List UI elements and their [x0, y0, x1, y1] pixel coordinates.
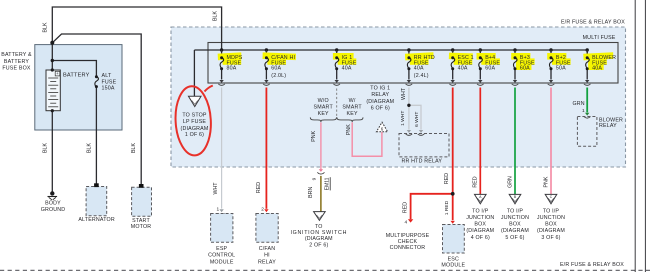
svg-text:WHT: WHT: [213, 182, 219, 195]
svg-text:(2.4L): (2.4L): [414, 73, 429, 79]
wire WHT mdps to esp: [221, 88, 223, 209]
connector out B+4: [478, 80, 482, 83]
svg-text:(DIAGRAM: (DIAGRAM: [305, 236, 333, 242]
bus junction x=408.9: [407, 48, 410, 51]
wire BRN to ignition switch: [320, 176, 322, 212]
brace w/ smart key: [337, 117, 363, 122]
battery & battery fuse box: [35, 45, 122, 130]
svg-text:SMART: SMART: [314, 104, 334, 110]
svg-text:GRN: GRN: [507, 176, 513, 188]
connector out IG 1: [335, 80, 339, 83]
connector out B+3: [513, 80, 517, 83]
svg-text:(DIAGRAM: (DIAGRAM: [501, 228, 529, 234]
fuse RR HTD: [407, 58, 411, 69]
svg-text:E/R FUSE & RELAY BOX: E/R FUSE & RELAY BOX: [561, 19, 625, 25]
svg-text:BLK: BLK: [213, 11, 219, 21]
bus junction x=551.0: [549, 48, 552, 51]
wire fuse drop x=266.4: [265, 50, 267, 58]
fuse MDPS highlight: [218, 52, 242, 60]
svg-text:PNK: PNK: [311, 130, 317, 141]
svg-text:60A: 60A: [485, 66, 495, 72]
svg-text:4: 4: [404, 219, 407, 225]
svg-text:C/FAN: C/FAN: [259, 246, 276, 252]
bus junction x=452.7: [451, 48, 454, 51]
connector out MDPS: [219, 80, 223, 83]
fuse B+2 highlight: [547, 53, 566, 60]
svg-text:50A: 50A: [556, 66, 566, 72]
connector out RR HTD: [407, 80, 411, 83]
svg-text:RED: RED: [403, 202, 409, 213]
brace w/o smart key: [310, 117, 336, 122]
svg-text:MODULE: MODULE: [210, 259, 234, 265]
svg-text:BOX: BOX: [509, 222, 521, 228]
fuse BLOWER: [586, 58, 590, 69]
svg-text:2 OF 6): 2 OF 6): [309, 242, 328, 248]
wire to start motor: [52, 34, 141, 184]
svg-text:40A: 40A: [342, 66, 352, 72]
fuse B+4: [479, 58, 483, 69]
connector out BLOWER: [585, 80, 589, 83]
svg-text:GROUND: GROUND: [41, 207, 66, 213]
svg-text:40A: 40A: [414, 66, 424, 72]
bus junction x=266.4: [265, 48, 268, 51]
svg-text:MOTOR: MOTOR: [131, 224, 152, 230]
svg-text:RELAY: RELAY: [371, 92, 389, 98]
svg-text:RELAY: RELAY: [599, 123, 617, 129]
svg-text:1: 1: [216, 207, 219, 213]
svg-text:40A: 40A: [592, 66, 602, 72]
svg-text:MULTI FUSE: MULTI FUSE: [583, 35, 616, 41]
svg-text:TO I/P: TO I/P: [543, 208, 560, 214]
svg-text:BATTERY: BATTERY: [63, 73, 90, 79]
fuse C/FAN HI: [265, 58, 269, 69]
fuse B+3: [513, 58, 517, 69]
svg-text:(2.0L): (2.0L): [271, 73, 286, 79]
wire battery feed top: [52, 7, 221, 50]
svg-text:5 OF 6): 5 OF 6): [505, 235, 524, 241]
svg-text:(DIAGRAM: (DIAGRAM: [366, 99, 394, 105]
fuse RR HTD highlight: [405, 52, 434, 60]
blower relay box: [577, 117, 597, 147]
svg-text:60A: 60A: [271, 66, 281, 72]
alternator: [86, 187, 107, 216]
svg-text:1 OF 6): 1 OF 6): [185, 132, 204, 138]
svg-text:RED: RED: [256, 182, 262, 193]
svg-text:BLK: BLK: [43, 22, 49, 32]
svg-text:JUNCTION: JUNCTION: [537, 215, 565, 221]
svg-text:6: 6: [381, 127, 384, 132]
junction node battery top: [50, 41, 54, 45]
wire PNK b+ fuse: [550, 88, 552, 195]
junction esc: [451, 192, 455, 196]
body ground symbol: [50, 191, 54, 195]
svg-text:(DIAGRAM: (DIAGRAM: [537, 228, 565, 234]
svg-text:1 WHT: 1 WHT: [400, 111, 406, 126]
fuse ALT 150A: [95, 77, 99, 88]
svg-text:RR HTD RELAY: RR HTD RELAY: [401, 159, 442, 165]
svg-text:(DIAGRAM: (DIAGRAM: [466, 228, 494, 234]
junction rr htd: [407, 104, 410, 107]
fuse IG 1: [335, 58, 339, 69]
connector out C/FAN HI: [264, 80, 268, 83]
wire WHT rr htd: [408, 88, 410, 130]
svg-text:RELAY: RELAY: [258, 259, 276, 265]
connector out ESC 1: [451, 80, 455, 83]
bus junction x=221.6: [220, 48, 223, 51]
bottom box dashed border: [0, 269, 650, 271]
svg-text:TO I/P: TO I/P: [472, 208, 489, 214]
svg-text:40A: 40A: [458, 66, 468, 72]
arrow to stop lp fuse: [188, 96, 201, 106]
RR HTD relay box: [399, 134, 449, 157]
svg-text:CONNECTOR: CONNECTOR: [390, 245, 426, 251]
connector EM11: [319, 169, 323, 172]
fuse B+3 highlight: [511, 53, 530, 60]
svg-text:BATTERY: BATTERY: [4, 59, 29, 65]
wire fuse drop x=515.0: [514, 50, 516, 58]
wire fuse drop x=452.7: [452, 50, 454, 58]
svg-text:80A: 80A: [227, 66, 237, 72]
svg-text:ESP: ESP: [216, 246, 227, 252]
svg-text:JUNCTION: JUNCTION: [466, 215, 494, 221]
svg-text:BOX: BOX: [474, 222, 486, 228]
svg-text:LP FUSE: LP FUSE: [183, 119, 207, 125]
svg-text:TO I/P: TO I/P: [507, 208, 524, 214]
wire fuse drop x=221.6: [221, 50, 223, 58]
page border lines: [634, 0, 636, 272]
smart key option split dashed line: [336, 89, 338, 117]
fuse BLOWER highlight: [583, 52, 613, 60]
wire branch to alt fuse: [52, 61, 96, 77]
multi fuse box: [208, 43, 618, 84]
svg-text:BODY: BODY: [45, 201, 61, 207]
svg-text:SMART: SMART: [342, 104, 362, 110]
svg-text:PNK: PNK: [346, 124, 352, 135]
svg-text:ALT: ALT: [102, 73, 112, 79]
wire alt fuse to alternator: [95, 87, 97, 185]
svg-text:WHT: WHT: [401, 87, 407, 100]
svg-text:RED: RED: [473, 176, 479, 187]
svg-text:6 WHT: 6 WHT: [414, 112, 420, 127]
svg-text:HI: HI: [264, 253, 270, 259]
ESP control module: [211, 214, 233, 243]
fuse B+4 highlight: [477, 53, 496, 60]
wire RED multipurpose branch: [411, 194, 453, 220]
svg-text:9: 9: [311, 177, 317, 180]
wire GRN blower: [586, 88, 588, 113]
svg-text:BRN: BRN: [308, 187, 314, 198]
bus junction x=336.7: [335, 48, 338, 51]
arrow to i/p junction box 4: [475, 194, 487, 203]
svg-text:1 RED: 1 RED: [444, 200, 450, 215]
svg-text:JUNCTION: JUNCTION: [501, 215, 529, 221]
wire RED cfan: [265, 88, 267, 209]
arrow to ignition switch: [314, 212, 326, 221]
wire fuse drop x=551.0: [550, 50, 552, 58]
svg-text:150A: 150A: [102, 86, 115, 92]
wire fuse drop x=408.9: [408, 50, 410, 58]
fuse ESC 1: [451, 58, 455, 69]
svg-text:MODULE: MODULE: [441, 263, 465, 269]
svg-text:1: 1: [582, 108, 585, 114]
svg-text:E/R FUSE & RELAY BOX: E/R FUSE & RELAY BOX: [560, 262, 624, 268]
fuse IG 1 highlight: [333, 53, 354, 60]
wire fuse drop x=587.2: [586, 50, 588, 58]
arrow to i/p junction box 5: [509, 194, 521, 203]
svg-text:BLK: BLK: [87, 143, 93, 153]
svg-text:RED: RED: [444, 173, 450, 184]
svg-text:(DIAGRAM: (DIAGRAM: [181, 126, 209, 132]
connector out B+2: [549, 80, 553, 83]
svg-text:ALTERNATOR: ALTERNATOR: [78, 217, 115, 223]
C/FAN HI relay: [256, 214, 278, 243]
wire RED esc: [452, 88, 454, 221]
svg-text:4 OF 6): 4 OF 6): [471, 235, 490, 241]
wire fuse drop x=336.7: [336, 50, 338, 58]
bus junction x=480.3: [479, 48, 482, 51]
wire PNK to ig1 relay: [352, 122, 382, 156]
triangle note to ig1 relay: [376, 122, 387, 132]
svg-text:BATTERY &: BATTERY &: [1, 52, 32, 58]
wire PNK ignition: [320, 122, 322, 169]
svg-text:2: 2: [261, 207, 264, 213]
svg-text:GRN: GRN: [572, 101, 584, 107]
svg-text:FUSE: FUSE: [102, 80, 117, 86]
fuse MDPS: [220, 58, 224, 69]
svg-text:TO: TO: [315, 224, 323, 230]
svg-text:60A: 60A: [520, 66, 530, 72]
svg-text:W/: W/: [349, 98, 356, 104]
wire WHT rr htd branch: [409, 105, 421, 129]
start motor: [132, 187, 152, 216]
svg-text:KEY: KEY: [347, 111, 358, 117]
fuse B+2: [549, 58, 553, 69]
wire GRN b+ fuse: [514, 88, 516, 195]
junction node alt branch: [51, 59, 54, 62]
svg-text:6 OF 6): 6 OF 6): [371, 105, 390, 111]
svg-text:CONTROL: CONTROL: [208, 253, 235, 259]
svg-text:BLK: BLK: [42, 143, 48, 153]
svg-text:EM11: EM11: [324, 177, 330, 190]
svg-text:W/O: W/O: [318, 98, 329, 104]
svg-text:3 OF 6): 3 OF 6): [541, 235, 560, 241]
wire fuse drop x=480.3: [479, 50, 481, 58]
battery B1: [46, 70, 60, 111]
svg-text:IGNITION SWITCH: IGNITION SWITCH: [290, 230, 347, 236]
fuse ESC 1 highlight: [449, 53, 473, 60]
svg-text:BOX: BOX: [545, 222, 557, 228]
svg-text:TO STOP: TO STOP: [182, 112, 207, 118]
bus junction x=515.0: [513, 48, 516, 51]
wire battery vertical: [51, 43, 53, 70]
svg-text:PNK: PNK: [543, 176, 549, 187]
bus wire: [194, 49, 587, 51]
E/R fuse & relay box: [171, 27, 626, 167]
red annotation ellipse: [174, 85, 213, 156]
svg-text:TO IG 1: TO IG 1: [370, 86, 390, 92]
fuse C/FAN HI highlight: [262, 52, 296, 60]
wire battery to ground: [51, 111, 53, 192]
svg-text:BLK: BLK: [131, 143, 137, 153]
svg-text:KEY: KEY: [318, 111, 329, 117]
arrow to i/p junction box 3: [545, 194, 557, 203]
svg-text:+: +: [56, 71, 59, 76]
ESC module: [443, 225, 465, 254]
svg-text:FUSE BOX: FUSE BOX: [2, 66, 31, 72]
arrow multipurpose: [408, 219, 413, 222]
wire to stop lp fuse: [193, 50, 195, 96]
wire RED b+ fuse: [479, 88, 481, 195]
wire blower fuse corner: [586, 50, 588, 58]
